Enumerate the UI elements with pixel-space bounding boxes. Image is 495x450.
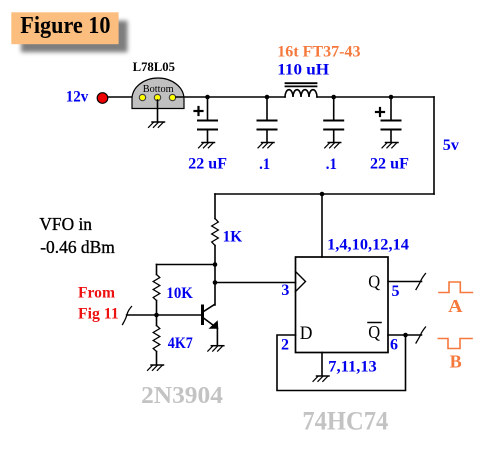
- svg-text:A: A: [448, 296, 462, 316]
- ground: C3: [325, 143, 341, 148]
- resistor R2 10K: [153, 265, 160, 316]
- svg-text:.1: .1: [259, 156, 270, 173]
- svg-text:4K7: 4K7: [168, 335, 193, 352]
- ground: C2: [258, 143, 274, 148]
- flip-flop U2 74HC74 box: [296, 257, 389, 353]
- wire: 5v rail from regulator to inductor: [176, 96, 285, 98]
- ground: Q1 emitter: [208, 346, 224, 351]
- wire: to 10K top: [157, 264, 216, 266]
- svg-text:110 uH: 110 uH: [277, 61, 329, 78]
- wire: 5v rail from inductor to right corner: [317, 96, 434, 98]
- svg-text:12v: 12v: [66, 89, 89, 106]
- capacitor C1 22uF: [195, 97, 218, 142]
- wire: clock line to U2 pin3: [215, 282, 296, 284]
- svg-text:-0.46 dBm: -0.46 dBm: [40, 237, 115, 257]
- voltage regulator U1 L78L05 body: [132, 78, 184, 109]
- waveform B: [438, 339, 472, 349]
- svg-text:1,4,10,12,14: 1,4,10,12,14: [327, 236, 409, 253]
- wire: feedback Qbar to D: [277, 335, 406, 391]
- svg-text:L78L05: L78L05: [133, 59, 176, 74]
- waveform A: [439, 282, 472, 293]
- junction: C3 to rail: [331, 95, 336, 100]
- svg-text:B: B: [450, 352, 462, 372]
- junction: C1 to rail: [205, 95, 210, 100]
- ground: C1: [199, 143, 215, 148]
- svg-text:6: 6: [390, 336, 398, 353]
- junction: C4 to rail: [389, 95, 394, 100]
- 12v input terminal red circle: [97, 93, 108, 104]
- wire: collector down: [214, 283, 216, 306]
- svg-text:74HC74: 74HC74: [302, 407, 388, 436]
- svg-text:Q: Q: [368, 322, 380, 342]
- svg-text:10K: 10K: [166, 285, 193, 302]
- wire break slash: pin 6: [416, 327, 426, 343]
- junction: collector node top: [213, 262, 218, 267]
- svg-text:5: 5: [392, 283, 400, 300]
- svg-text:Figure 10: Figure 10: [20, 13, 110, 39]
- regulator pin 3: [169, 94, 175, 100]
- svg-text:2N3904: 2N3904: [141, 383, 223, 409]
- junction: 5v to U2: [320, 192, 325, 197]
- ground: U2: [313, 376, 329, 381]
- svg-text:From: From: [78, 284, 116, 301]
- svg-text:D: D: [300, 323, 313, 344]
- svg-text:5v: 5v: [443, 137, 459, 154]
- junction: C2 to rail: [265, 95, 270, 100]
- svg-text:.1: .1: [326, 156, 337, 173]
- wire: base input: [127, 314, 202, 316]
- junction: clock tap: [213, 280, 218, 285]
- wire: U2 power pins: [321, 194, 323, 257]
- wire break slash: from fig 11: [123, 307, 132, 325]
- Figure 10 title box: [11, 12, 118, 44]
- svg-text:Q: Q: [368, 272, 380, 292]
- wire: regulator ground pin: [157, 100, 159, 122]
- capacitor C3 0.1: [324, 97, 343, 142]
- inductor L1 core bars: [286, 82, 317, 84]
- svg-text:16t FT37-43: 16t FT37-43: [277, 44, 360, 61]
- ground: C4: [382, 143, 398, 148]
- svg-text:7,11,13: 7,11,13: [328, 359, 377, 376]
- svg-text:3: 3: [281, 282, 289, 299]
- wire: Q output pin 5: [388, 281, 422, 283]
- wire break slash: pin 5: [416, 274, 426, 290]
- resistor R1 1K: [212, 194, 219, 265]
- Figure 10 title shadow: [21, 21, 128, 53]
- svg-text:1K: 1K: [223, 229, 243, 246]
- ground: R3: [148, 365, 164, 370]
- transistor Q1 2N3904: [203, 305, 219, 346]
- wire: 5v return line: [215, 193, 434, 195]
- svg-text:22 uF: 22 uF: [370, 156, 409, 173]
- junction: base node: [154, 313, 159, 318]
- junction: feedback tap: [403, 333, 408, 338]
- capacitor C2 0.1: [258, 97, 277, 142]
- regulator pin 2 (gnd): [154, 94, 160, 100]
- svg-text:2: 2: [281, 336, 289, 353]
- svg-text:Bottom: Bottom: [143, 84, 174, 95]
- wire: 5v rail right vertical: [433, 97, 435, 194]
- ground: regulator: [149, 122, 165, 127]
- U2 clock wedge: [296, 272, 306, 292]
- svg-text:Fig 11: Fig 11: [78, 305, 119, 322]
- wire: U2 ground pins: [321, 353, 323, 376]
- inductor L1 winding: [285, 90, 317, 97]
- wire: Qbar output pin 6: [388, 334, 422, 336]
- regulator pin 1: [139, 94, 145, 100]
- wire: collector node vertical: [214, 265, 216, 283]
- svg-text:VFO in: VFO in: [39, 214, 92, 234]
- svg-text:22 uF: 22 uF: [188, 156, 227, 173]
- capacitor C4 22uF: [376, 97, 401, 142]
- resistor R3 4K7: [153, 315, 160, 365]
- wire: 12v to regulator input: [108, 96, 140, 98]
